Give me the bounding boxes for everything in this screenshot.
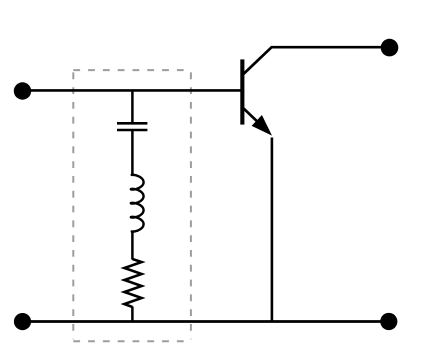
inductor L coil [131,173,144,233]
dashed selection box bottom edge [73,340,191,342]
terminal dot top right [381,39,399,57]
transistor emitter arrowhead [252,115,272,136]
resistor R zigzag [124,259,141,307]
wire base horizontal [23,89,241,92]
terminal dot left [14,82,31,99]
transistor collector diagonal [244,47,272,74]
wire inductor to resistor [131,231,134,260]
wire capacitor to inductor [131,131,134,175]
dashed selection box top edge [73,69,191,71]
dashed selection box left edge [72,72,74,339]
transistor emitter diagonal [244,108,267,130]
transistor Q base bar [240,59,244,124]
capacitor C plates [117,122,147,125]
wire top collector horizontal [271,46,389,49]
wire resistor bottom lead [131,307,134,322]
wire emitter vertical [271,138,274,322]
terminal dot bottom left [14,313,31,330]
terminal dot bottom right [380,313,397,330]
wire capacitor top lead [131,90,134,122]
dashed selection box right edge [190,72,192,339]
wire bottom horizontal [23,320,389,323]
